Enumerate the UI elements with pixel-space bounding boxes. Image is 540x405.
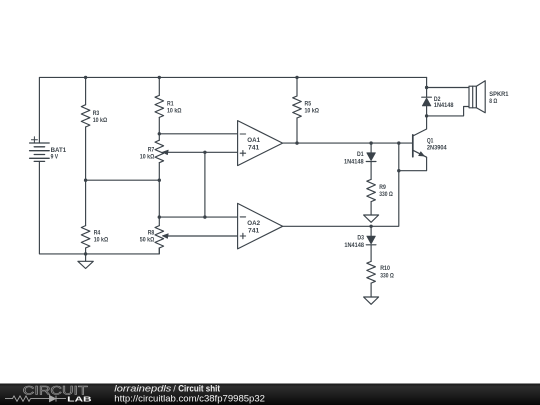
svg-text:10 kΩ: 10 kΩ [93,117,108,124]
svg-text:741: 741 [248,228,260,235]
junction R7-R8 / OA2 inverting [158,215,161,218]
wire Q1 emitter return [399,157,427,170]
potentiometer R8 wiper arrow [162,234,168,239]
logo squiggle (resistor + diode) [5,396,66,402]
wire R7-R8 column [158,134,160,254]
diode D2 1N4148 (pointing up) [422,96,432,98]
svg-text:R10: R10 [380,265,390,272]
junction speaker bottom / D2 [425,114,428,117]
wire speaker bottom terminal [427,107,469,116]
junction wiper wire / link node [203,151,206,154]
svg-text:lorrainepdls: lorrainepdls [114,383,172,393]
op-amp OA1 741 [238,121,283,166]
ground (R9) [364,215,379,222]
svg-text:1N4148: 1N4148 [344,158,364,165]
svg-text:SPKR1: SPKR1 [489,91,508,98]
wire mid-left rail node [86,179,160,181]
wire battery bottom to ground rail [39,161,159,254]
svg-text:50 kΩ: 50 kΩ [140,237,155,244]
wire D3 lead [370,226,372,261]
resistor R5 10k [293,96,302,118]
svg-text:D1: D1 [357,151,364,158]
wire OA1 output to Q1 base [283,142,413,144]
svg-text:D3: D3 [357,235,364,242]
wire D1 lead [370,143,372,179]
wire top rail [39,77,426,143]
wire OA1 inverting input [159,133,237,135]
svg-text:10 kΩ: 10 kΩ [305,108,320,115]
junction emitter return [397,169,400,172]
wire R9 to ground [370,202,372,215]
wire R3 column [85,77,87,180]
junction link node / OA2 inverting [203,215,206,218]
svg-text:R3: R3 [93,110,100,117]
junction speaker top / D2 [425,86,428,89]
svg-text:http://circuitlab.com/c38fp799: http://circuitlab.com/c38fp79985p32 [114,394,265,404]
junction R1-R7 / OA1 inverting [158,132,161,135]
potentiometer R7 wiper arrow [162,150,168,155]
svg-text:10 kΩ: 10 kΩ [140,154,155,161]
svg-text:2N3904: 2N3904 [427,144,447,151]
ground (battery rail) [78,254,93,269]
speaker SPKR1 [469,86,476,108]
resistor R10 330 [367,261,376,283]
junction OA1 output / D1 [369,141,372,144]
svg-text:741: 741 [248,144,260,151]
svg-text:OA2: OA2 [247,220,260,227]
junction ground rail / R4 [84,252,87,255]
resistor R3 10k [81,105,90,127]
junction OA1 output / R5 [295,141,298,144]
svg-text:LAB: LAB [67,394,92,403]
wire R1 column [158,77,160,133]
junction OA2 output / D3 [369,225,372,228]
svg-text:8 Ω: 8 Ω [489,98,498,105]
potentiometer R8 body [155,226,164,248]
op-amp OA2 741 [238,203,283,249]
svg-text:330 Ω: 330 Ω [380,273,394,280]
svg-text:R4: R4 [94,230,101,237]
transistor Q1 2N3904 [412,135,414,157]
resistor R9 330 [367,179,376,201]
svg-text:R5: R5 [305,101,312,108]
junction top rail / R1 [158,76,161,79]
junction R7-R8 / mid rail [158,179,161,182]
junction top rail / R5 [295,76,298,79]
svg-text:OA1: OA1 [247,137,260,144]
svg-text:R1: R1 [167,101,174,108]
junction OA1 output / feedback [397,141,400,144]
resistor R4 10k [81,226,90,248]
svg-text:R9: R9 [379,184,386,191]
diode D3 1N4148 [367,236,376,244]
svg-text:1N4148: 1N4148 [434,102,454,109]
battery BAT1 [30,137,50,162]
svg-text:10 kΩ: 10 kΩ [94,237,109,244]
wire OA2 inverting input [159,216,237,218]
svg-text:330 Ω: 330 Ω [379,191,393,198]
wire R4 column [85,180,87,254]
wire R7 wiper to OA1 noninverting input [167,151,238,153]
diode D1 1N4148 [367,153,376,161]
wire R5 column [296,77,298,143]
wire R10 to ground [370,283,372,297]
svg-text:Circuit shit: Circuit shit [178,383,220,393]
svg-text:1N4148: 1N4148 [344,242,364,249]
svg-text:R8: R8 [148,230,155,237]
footer bar [0,384,540,405]
junction top rail / R3 [84,76,87,79]
resistor R1 10k [155,95,164,117]
svg-text:9 V: 9 V [51,153,59,160]
wire OA2 output [283,143,399,226]
ground (R10) [364,297,379,304]
svg-text:R7: R7 [148,147,155,154]
wire node link OA1+ to OA2- [204,152,206,217]
junction R3-R4 / mid rail [84,179,87,182]
wire D2 column [426,77,428,116]
potentiometer R7 body [155,140,164,163]
svg-text:10 kΩ: 10 kΩ [167,108,182,115]
wire R8 wiper to OA2 noninverting input [167,235,238,237]
wire speaker top terminal [427,87,469,89]
